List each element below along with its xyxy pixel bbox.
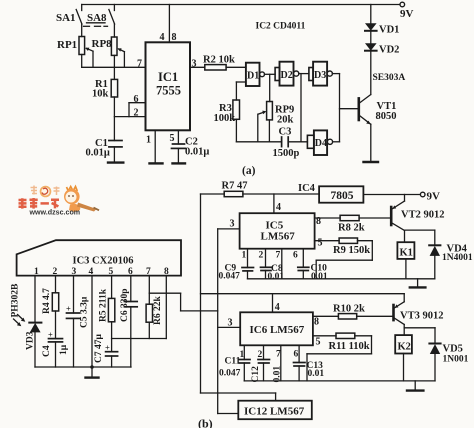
ground IC5 row (410, 279, 426, 288)
resistor R8 2k (315, 215, 392, 233)
svg-text:D3: D3 (314, 70, 326, 81)
wire pin 8 down (165, 276, 167, 339)
svg-text:1: 1 (146, 135, 151, 146)
switch SA1 (56, 5, 82, 25)
wire pin4 to ground rail (91, 276, 93, 367)
resistor R9 150k (315, 238, 373, 279)
svg-text:+: + (105, 343, 110, 353)
potentiometer RP1 (57, 37, 93, 68)
svg-text:SA1: SA1 (56, 12, 76, 24)
svg-text:IC1: IC1 (158, 70, 178, 84)
resistor R6 22k on pin 7 (146, 276, 163, 339)
svg-text:0.01: 0.01 (308, 369, 325, 379)
svg-text:7: 7 (276, 251, 281, 261)
transistor VT3 9012 (394, 294, 444, 335)
switch SA8 (84, 5, 115, 27)
capacitor C6 330p (120, 276, 137, 367)
svg-text:VD1: VD1 (379, 25, 399, 36)
wire pin 7 output zigzag (149, 293, 217, 311)
wire 5V spine from R7 (201, 194, 276, 401)
svg-text:0.01: 0.01 (311, 272, 328, 282)
capacitor C11 0.047 on IC6 pin1 (219, 345, 250, 381)
capacitor C13 0.01 on IC6 pin6 (294, 345, 325, 381)
svg-text:0.047: 0.047 (219, 272, 241, 282)
diode VD1 (365, 5, 399, 36)
svg-text:10k: 10k (92, 89, 109, 100)
svg-text:+: + (66, 304, 71, 314)
svg-text:C6 330p: C6 330p (120, 288, 130, 322)
svg-text:R10 2k: R10 2k (333, 304, 365, 315)
svg-text:C7 47μ: C7 47μ (94, 334, 104, 363)
svg-text:R2 10k: R2 10k (203, 55, 235, 66)
svg-text:7: 7 (137, 59, 142, 70)
wire D2 out to D3 (299, 73, 309, 75)
svg-text:6: 6 (293, 251, 298, 261)
op-amp IC3 CX20106 box (17, 240, 181, 277)
svg-text:D1: D1 (247, 71, 259, 82)
svg-text:1μ: 1μ (59, 344, 69, 355)
svg-text:PH302B: PH302B (11, 283, 21, 317)
wire signal bus (218, 229, 239, 414)
svg-text:C11: C11 (225, 357, 241, 367)
svg-text:5: 5 (316, 337, 321, 348)
wire SA8 to RP8 (113, 24, 115, 37)
svg-text:20k: 20k (277, 115, 294, 126)
wire 5V branch to IC6/VT3 (201, 293, 405, 295)
node junction dot (90, 365, 94, 369)
capacitor C5 3.3u (66, 276, 90, 367)
wire pin 1 to ground (146, 130, 163, 163)
svg-text:(b): (b) (198, 417, 213, 428)
svg-text:C5 3.3μ: C5 3.3μ (80, 296, 90, 328)
svg-text:RP1: RP1 (57, 39, 77, 51)
op-amp IC4 7805 (298, 183, 363, 203)
svg-text:IC12 LM567: IC12 LM567 (244, 406, 305, 418)
gate D2 (275, 62, 299, 86)
op-amp IC6 LM567 (240, 294, 313, 346)
gate D1 (236, 63, 264, 100)
svg-text:7: 7 (146, 267, 151, 277)
resistor R3 100k (214, 100, 240, 142)
wire bottom bus to pin7 of IC1 (81, 55, 83, 68)
svg-text:4: 4 (89, 267, 94, 277)
wire pin 2 (114, 108, 145, 119)
svg-text:9V: 9V (427, 191, 441, 203)
ground VT1 emitter (364, 124, 379, 162)
svg-text:2: 2 (258, 350, 263, 360)
svg-text:3: 3 (230, 219, 235, 230)
svg-text:0.01μ: 0.01μ (185, 147, 209, 158)
ground symbol (b) left (86, 367, 99, 378)
wire ground rail (b) left (35, 366, 131, 368)
gate D3 (309, 62, 333, 86)
wire IC6 row ground rail (244, 380, 435, 382)
diode VD2 (365, 31, 399, 56)
svg-text:4: 4 (275, 302, 280, 313)
wire IC5 pin7 to ground rail (276, 249, 282, 279)
svg-text:8050: 8050 (376, 111, 397, 122)
wire pins 4 8 to rail (160, 5, 177, 44)
capacitor C10 0.01 on IC5 pin6 (293, 249, 328, 282)
svg-text:RP8: RP8 (92, 38, 113, 50)
svg-text:1500p: 1500p (273, 148, 300, 159)
ground IC6 row (407, 381, 423, 391)
svg-text:LM567: LM567 (261, 231, 296, 243)
capacitor C12 0.01 on IC6 pin2 (251, 345, 283, 382)
transistor VT1 8050 (359, 51, 397, 125)
svg-text:1N001: 1N001 (443, 355, 469, 365)
svg-text:R11 110k: R11 110k (329, 341, 370, 352)
svg-text:IC3 CX20106: IC3 CX20106 (73, 256, 134, 267)
capacitor C4 1u (42, 330, 69, 368)
op-amp IC5 LM567 (240, 194, 315, 249)
svg-text:1: 1 (242, 251, 247, 261)
svg-text:VD3: VD3 (26, 331, 36, 350)
resistor R1 10k (92, 67, 118, 99)
svg-text:3: 3 (192, 59, 197, 70)
capacitor C2 0.01u on pin 5 (170, 130, 210, 163)
potentiometer RP8 (92, 37, 125, 67)
svg-text:C12: C12 (251, 366, 261, 383)
svg-text:100k: 100k (214, 113, 236, 124)
wire IC5 pin 3 (218, 219, 240, 230)
svg-text:VT2 9012: VT2 9012 (401, 210, 444, 221)
svg-text:8: 8 (314, 317, 319, 328)
svg-text:SE303A: SE303A (373, 73, 406, 83)
photodiode VD3 PH302B (11, 276, 42, 367)
svg-text:4: 4 (276, 202, 281, 213)
resistor R2 10k (190, 55, 246, 71)
wire IC6 pin7 to ground rail (276, 345, 281, 381)
resistor R4 4.7 (42, 276, 59, 339)
ground below C1 (108, 147, 123, 163)
svg-text:R8 2k: R8 2k (338, 223, 365, 234)
capacitor C9 0.047 on IC5 pin1 (219, 249, 254, 282)
svg-text:1N4001: 1N4001 (442, 253, 473, 263)
wire IC5 row ground rail (248, 278, 435, 280)
watermark logo dzsc (19, 186, 100, 217)
op-amp IC1 7555 box (146, 42, 191, 130)
relay K2 (395, 335, 412, 381)
wire D2-D3 junction down to C3/D4 (300, 74, 302, 142)
diode VD4 1N4001 (405, 230, 473, 279)
svg-text:R5 211k: R5 211k (98, 288, 108, 322)
svg-text:6: 6 (294, 350, 299, 360)
wire R1 to C1 (113, 97, 115, 141)
svg-text:4: 4 (160, 32, 165, 43)
svg-text:D4: D4 (315, 138, 327, 149)
wire SA1 to RP1 (81, 24, 83, 37)
svg-text:6: 6 (134, 94, 139, 105)
resistor R5 21k (98, 276, 115, 339)
svg-text:R4 4.7: R4 4.7 (42, 288, 52, 314)
node 9V terminal (a) (400, 2, 405, 7)
svg-text:IC6 LM567: IC6 LM567 (250, 324, 305, 336)
resistor R11 110k (307, 333, 372, 381)
wire D1 out to D2 (265, 73, 276, 75)
svg-text:www.dzsc.com: www.dzsc.com (29, 209, 81, 217)
resistor R10 2k (313, 304, 394, 328)
potentiometer RP9 20k (258, 74, 294, 142)
svg-text:2: 2 (134, 108, 139, 119)
svg-text:+: + (48, 330, 53, 340)
svg-text:9V: 9V (400, 8, 414, 20)
svg-text:8: 8 (172, 32, 177, 43)
svg-text:R6 22k: R6 22k (153, 296, 163, 325)
svg-text:VD5: VD5 (443, 344, 463, 355)
wire IC6 pin 3 (218, 318, 241, 329)
diode VD5 1N001 (404, 328, 468, 381)
wire bottom of (a) oscillator (236, 141, 281, 143)
svg-text:IC2 CD4011: IC2 CD4011 (256, 22, 306, 32)
node 9V terminal (b) (363, 191, 440, 203)
svg-text:VD2: VD2 (379, 45, 399, 56)
capacitor C7 47u (94, 334, 118, 367)
capacitor C1 0.01u (86, 138, 123, 159)
svg-text:R9 150k: R9 150k (333, 245, 370, 256)
svg-text:5: 5 (170, 133, 175, 144)
transistor VT2 9012 (391, 195, 444, 243)
wire mid bus R5/C6/R6/C7/pin8 (112, 338, 167, 340)
svg-text:VT3 9012: VT3 9012 (400, 311, 443, 322)
wire top supply rail (a) (82, 4, 400, 6)
gate D4 (307, 130, 332, 155)
svg-text:7555: 7555 (156, 84, 181, 98)
svg-text:7805: 7805 (331, 190, 354, 202)
svg-text:0.01μ: 0.01μ (86, 148, 110, 159)
capacitor C8 0.01 on IC5 pin2 (259, 249, 285, 282)
svg-text:D2: D2 (281, 70, 293, 81)
wire D3/D4 outputs to VT1 base (339, 74, 341, 142)
svg-text:5: 5 (318, 238, 323, 249)
svg-text:K1: K1 (400, 248, 413, 259)
relay K1 (397, 242, 414, 279)
capacitor C3 1500p (273, 127, 300, 160)
resistor R7 47 (201, 181, 320, 197)
op-amp IC12 LM567 (238, 401, 311, 420)
svg-text:0.047: 0.047 (219, 369, 241, 379)
svg-text:C3: C3 (279, 127, 292, 138)
svg-text:R7 47: R7 47 (222, 181, 248, 192)
wire pin 6 (129, 94, 146, 117)
svg-text:(a): (a) (242, 165, 256, 177)
svg-text:C4: C4 (42, 345, 52, 357)
svg-text:K2: K2 (398, 342, 411, 353)
svg-text:2: 2 (259, 251, 264, 261)
svg-text:IC4: IC4 (298, 183, 316, 194)
